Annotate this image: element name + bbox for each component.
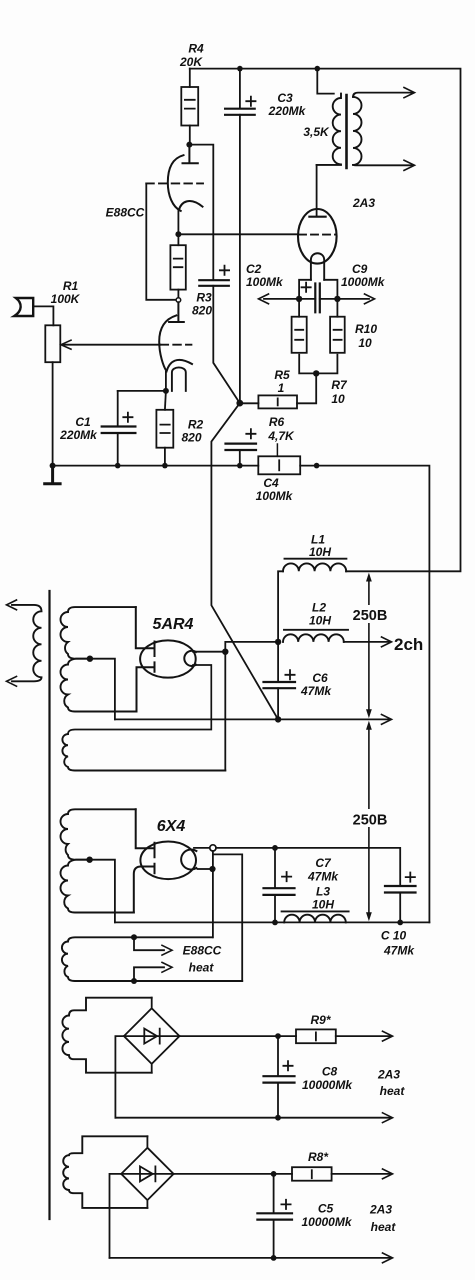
wire heater return via E88CC heat box — [213, 854, 242, 981]
bridge rectifier D2 — [121, 1136, 173, 1208]
svg-text:250B: 250B — [353, 813, 388, 829]
node heater tap top — [131, 934, 137, 940]
wire R9 out (arrow) — [336, 1035, 390, 1037]
wire cathode to C1 — [118, 390, 166, 392]
svg-text:10: 10 — [358, 336, 372, 350]
tube V2 2A3 plate lead — [317, 69, 334, 94]
svg-text:10H: 10H — [309, 545, 331, 559]
node C8 top — [275, 1033, 281, 1039]
svg-text:R6: R6 — [269, 415, 285, 429]
svg-text:47Mk: 47Mk — [383, 944, 415, 958]
triode U1a cathode — [179, 201, 203, 210]
resistor R6 — [258, 456, 300, 474]
svg-text:47Mk: 47Mk — [300, 684, 332, 698]
svg-text:10000Mk: 10000Mk — [301, 1215, 352, 1229]
wire bottom B- rail — [115, 921, 430, 923]
svg-text:820: 820 — [192, 304, 212, 318]
svg-text:C2: C2 — [246, 262, 262, 276]
svg-text:E88CC: E88CC — [183, 944, 222, 958]
svg-text:R4: R4 — [188, 42, 204, 56]
svg-text:R8*: R8* — [308, 1150, 329, 1164]
resistor R3 — [177, 234, 179, 245]
wire OPT to 2A3 plate — [316, 165, 318, 217]
svg-text:47Mk: 47Mk — [307, 870, 339, 884]
node right of R6 — [314, 463, 320, 469]
node filament right — [334, 296, 340, 302]
wire R10 bottoms to junction — [299, 355, 337, 374]
wire rail right of R6 — [300, 466, 429, 923]
svg-text:heat: heat — [371, 1220, 397, 1234]
svg-text:2ch: 2ch — [394, 635, 423, 654]
wire plate to C2 — [189, 145, 213, 280]
wire bridge2 plus to R8 — [174, 1173, 292, 1175]
svg-text:1: 1 — [278, 381, 285, 395]
ground — [45, 466, 60, 484]
svg-text:3,5K: 3,5K — [303, 125, 330, 139]
node C4 on rail — [237, 463, 243, 469]
wire E88CC heat arrow lower — [134, 967, 164, 981]
T1 6.3V heater winding — [62, 937, 242, 981]
svg-text:C5: C5 — [318, 1202, 334, 1216]
svg-text:C3: C3 — [277, 91, 293, 105]
capacitor C9 (between filament legs) — [299, 298, 337, 300]
5AR4 plate 1 — [136, 607, 155, 656]
capacitor C6 — [277, 642, 279, 682]
triode U1a grid (dashed) — [146, 182, 203, 184]
measure arrow 250B lower — [368, 728, 370, 915]
triode U1a E88CC upper: plate — [183, 145, 198, 164]
node C7 bottom — [272, 920, 278, 926]
svg-text:R9*: R9* — [310, 1013, 331, 1027]
svg-text:C7: C7 — [315, 856, 332, 870]
resistor R9* — [296, 1029, 336, 1043]
capacitor C2 — [199, 280, 229, 286]
svg-text:heat: heat — [189, 961, 215, 975]
node lower cathode — [163, 388, 169, 394]
wire diagonal A to filter rail — [211, 403, 278, 719]
wire filament right drop — [324, 280, 337, 299]
svg-text:R2: R2 — [188, 418, 204, 432]
node 5AR4 cathode — [222, 649, 228, 655]
T1 HV winding (5AR4) lower half — [61, 659, 137, 712]
svg-text:100Mk: 100Mk — [246, 275, 284, 289]
resistor R4 — [189, 69, 191, 87]
svg-text:1000Mk: 1000Mk — [341, 275, 386, 289]
node X (C3/C2/C4/R5/diag) — [236, 400, 243, 407]
svg-text:E88CC: E88CC — [106, 206, 145, 220]
svg-text:100Mk: 100Mk — [256, 489, 294, 503]
wire filament left drop — [299, 280, 311, 299]
svg-text:10H: 10H — [312, 898, 334, 912]
5AR4 filament to 5V winding — [68, 665, 211, 734]
node R1 ground — [50, 463, 56, 469]
wire 6X4 filament pin — [198, 868, 212, 870]
T1 HV winding (5AR4) upper half — [61, 607, 136, 659]
resistor R8* — [292, 1167, 332, 1181]
svg-text:4,7K: 4,7K — [267, 429, 295, 443]
svg-text:C9: C9 — [352, 262, 368, 276]
node upper cathode / 2A3 grid — [175, 231, 181, 237]
potentiometer R1 — [45, 325, 60, 362]
triode U1a envelope — [168, 155, 184, 211]
node R2 on rail — [162, 463, 168, 469]
wire B+ top rail — [190, 69, 461, 572]
wire lower grid to R1 wiper (arrow) — [63, 344, 160, 346]
wire filament bus right arrow — [337, 298, 369, 300]
svg-text:10H: 10H — [309, 614, 331, 628]
node C7 top — [272, 845, 278, 851]
wire bridge2 return rail (arrow) — [110, 1257, 391, 1259]
OPT primary 3,5K — [317, 94, 341, 165]
svg-text:5AR4: 5AR4 — [153, 616, 194, 633]
node HV center tap — [87, 656, 93, 662]
node C8 bottom — [275, 1115, 281, 1121]
T1 2A3 heat winding 2 — [63, 1136, 147, 1208]
wire secondary out top (arrow) — [353, 93, 413, 97]
triode U1b grid (dashed) — [161, 344, 192, 346]
wire bridge1 minus — [115, 1036, 124, 1118]
svg-text:C6: C6 — [312, 671, 328, 685]
node C10 bottom — [397, 920, 403, 926]
node heater tap bottom — [131, 978, 137, 984]
wire filter common rail (arrow) — [115, 718, 389, 720]
OPT core — [345, 95, 348, 168]
node cathode terminal (circle) — [210, 845, 216, 851]
capacitor C10 — [385, 886, 416, 893]
wire cathode to rail circle — [194, 847, 210, 849]
svg-text:6X4: 6X4 — [157, 818, 186, 835]
svg-text:2A3: 2A3 — [369, 1203, 392, 1217]
OPT secondary — [353, 97, 362, 165]
triode U1b cathode — [167, 360, 193, 372]
T1 HV winding (6X4) lower half — [61, 860, 134, 913]
capacitor C7 — [274, 848, 276, 888]
6X4 plate 1 — [136, 809, 155, 857]
node C5 top — [271, 1171, 277, 1177]
node filament left — [296, 296, 302, 302]
capacitor C4 — [226, 444, 257, 450]
wire upper grid to lower plate — [146, 183, 175, 299]
triode U1b heater — [172, 367, 186, 390]
svg-text:R3: R3 — [196, 291, 212, 305]
wire L2 out to 2ch (arrow) — [344, 641, 389, 643]
input connector J1 — [14, 298, 33, 316]
svg-text:2A3: 2A3 — [352, 196, 375, 210]
wire center tap to filter rail — [90, 659, 115, 720]
svg-text:heat: heat — [380, 1084, 406, 1098]
wire 5V bottom to cathode node — [224, 652, 226, 771]
measure arrow 250B upper — [368, 580, 370, 714]
capacitor C5 — [273, 1174, 275, 1213]
wire bridge2 minus — [110, 1174, 122, 1258]
capacitor C3 — [239, 69, 241, 109]
node top-rail/C3 junction — [237, 66, 243, 72]
wire B rail 6X4 — [216, 848, 400, 886]
node filament/heater junction — [209, 866, 215, 872]
svg-text:820: 820 — [181, 431, 201, 445]
transformer T1 core — [48, 591, 50, 1219]
svg-text:250B: 250B — [353, 608, 388, 624]
6X4 plate 2 — [134, 864, 155, 913]
svg-text:220Mk: 220Mk — [59, 428, 98, 442]
2A3 filament — [311, 253, 324, 280]
wire filament bus left arrow — [264, 298, 299, 300]
node C1 on rail — [115, 463, 121, 469]
5AR4 cathode — [184, 651, 196, 666]
triode U1b E88CC lower: plate — [169, 302, 184, 322]
node C6 on filter rail — [275, 716, 281, 722]
wire bridge1 return rail (arrow) — [115, 1117, 390, 1119]
svg-text:100K: 100K — [51, 292, 81, 306]
svg-text:L2: L2 — [312, 601, 326, 615]
6X4 cathode — [181, 850, 196, 870]
resistor R10 left leg — [298, 299, 300, 317]
wire 5AR4 cathode to L2 junction — [225, 642, 278, 650]
wire input to R1 — [35, 306, 54, 325]
wire center tap to bottom rail — [90, 860, 115, 923]
svg-text:C 10: C 10 — [381, 929, 407, 943]
T1 HV winding (6X4) upper half — [61, 809, 136, 859]
svg-text:10000Mk: 10000Mk — [302, 1078, 353, 1092]
resistor R5 — [240, 402, 259, 404]
wire R8 out (arrow) — [332, 1173, 390, 1175]
wire bridge1 plus to R9 — [180, 1035, 297, 1037]
node L1/L2/C6 junction — [275, 639, 281, 645]
svg-text:C1: C1 — [75, 415, 91, 429]
wire 2A3 grid line — [178, 233, 298, 235]
resistor R10 right leg — [336, 299, 338, 317]
bridge rectifier D1 — [124, 998, 180, 1073]
wire ground rail left — [53, 465, 259, 467]
svg-text:10: 10 — [331, 392, 345, 406]
svg-text:20K: 20K — [179, 55, 203, 69]
T1 primary winding with mains arrows — [12, 605, 42, 681]
node 6X4 center tap — [86, 857, 92, 863]
svg-text:R5: R5 — [274, 368, 290, 382]
wire heater vertical to 6.3V winding — [212, 851, 214, 937]
node lower plate (circle) — [176, 298, 181, 303]
5AR4 plate 2 — [137, 662, 155, 711]
wire secondary out bottom (arrow) — [353, 164, 413, 166]
resistor R2 — [165, 391, 166, 410]
svg-text:C4: C4 — [263, 476, 279, 490]
svg-text:R7: R7 — [331, 378, 348, 392]
node C5 bottom — [271, 1255, 277, 1261]
T1 2A3 heat winding 1 — [62, 998, 151, 1073]
capacitor C8 — [277, 1036, 279, 1076]
svg-text:220Mk: 220Mk — [268, 104, 307, 118]
svg-text:2A3: 2A3 — [377, 1068, 400, 1082]
svg-text:R1: R1 — [63, 279, 79, 293]
node plate of upper triode — [186, 142, 192, 148]
node top-rail/OPT junction — [315, 66, 321, 72]
svg-text:R10: R10 — [355, 322, 377, 336]
svg-text:L3: L3 — [316, 885, 330, 899]
capacitor C1 — [117, 391, 119, 426]
wire E88CC heat arrow upper — [134, 937, 164, 950]
T1 5V winding — [62, 734, 225, 771]
svg-text:C8: C8 — [322, 1065, 338, 1079]
node R5/R7 R10 junction — [313, 370, 319, 376]
triode U1b envelope — [159, 315, 176, 370]
